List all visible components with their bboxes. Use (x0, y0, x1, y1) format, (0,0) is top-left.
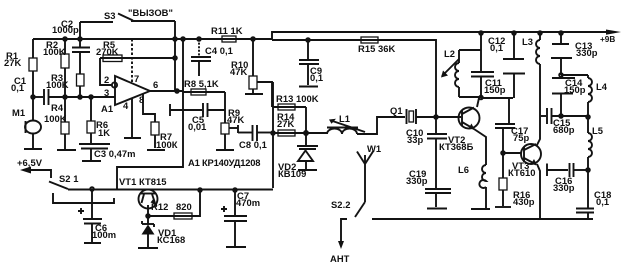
svg-text:R8 5,1K: R8 5,1K (184, 78, 219, 89)
svg-text:A1: A1 (101, 103, 113, 114)
svg-text:S2.2: S2.2 (331, 199, 351, 210)
svg-text:27K: 27K (4, 57, 22, 68)
svg-text:L6: L6 (458, 164, 469, 175)
svg-text:75p: 75p (513, 132, 530, 143)
svg-text:+9В: +9В (600, 35, 615, 44)
svg-text:330p: 330p (406, 175, 428, 186)
svg-text:100K: 100K (43, 46, 66, 57)
svg-text:R11 1K: R11 1K (211, 25, 243, 36)
svg-text:150p: 150p (564, 84, 586, 95)
svg-text:33p: 33p (407, 134, 424, 145)
svg-text:R13 100K: R13 100K (276, 93, 319, 104)
svg-text:3: 3 (104, 87, 109, 98)
svg-text:150p: 150p (484, 84, 506, 95)
svg-text:L3: L3 (522, 36, 533, 47)
svg-text:470m: 470m (236, 197, 260, 208)
svg-text:L4: L4 (596, 81, 608, 92)
svg-text:А1 КР140УД1208: А1 КР140УД1208 (188, 157, 260, 168)
svg-text:0,1: 0,1 (490, 42, 503, 53)
svg-text:КТ610: КТ610 (508, 167, 536, 178)
svg-text:430p: 430p (513, 196, 535, 207)
svg-text:330p: 330p (576, 47, 598, 58)
svg-text:7: 7 (134, 73, 139, 84)
svg-text:М1: М1 (12, 107, 25, 118)
svg-text:C8 0,1: C8 0,1 (239, 139, 267, 150)
svg-text:330p: 330p (553, 182, 575, 193)
svg-text:S3: S3 (104, 10, 116, 21)
svg-text:R12: R12 (151, 201, 168, 212)
svg-text:КВ109: КВ109 (278, 168, 306, 179)
svg-text:680p: 680p (553, 124, 575, 135)
svg-text:АНТ: АНТ (330, 253, 350, 264)
svg-text:L1: L1 (339, 113, 350, 124)
svg-text:820: 820 (176, 201, 192, 212)
svg-text:0,01: 0,01 (188, 121, 206, 132)
svg-text:6: 6 (153, 79, 158, 90)
svg-text:100К: 100К (156, 139, 178, 150)
svg-text:L5: L5 (592, 125, 603, 136)
svg-text:27K: 27K (277, 118, 295, 129)
svg-text:100m: 100m (92, 229, 116, 240)
svg-text:L2: L2 (444, 48, 455, 59)
svg-text:C4 0,1: C4 0,1 (205, 45, 233, 56)
svg-text:4: 4 (123, 100, 129, 111)
svg-text:C3 0,47m: C3 0,47m (94, 148, 136, 159)
svg-text:100K: 100K (46, 79, 69, 90)
svg-text:1K: 1K (98, 127, 110, 138)
svg-text:Q1: Q1 (390, 105, 403, 116)
svg-text:W1: W1 (367, 143, 381, 154)
svg-text:КТ368Б: КТ368Б (439, 141, 474, 152)
svg-text:2: 2 (104, 74, 109, 85)
svg-text:КС168: КС168 (157, 234, 185, 245)
svg-text:0,1: 0,1 (596, 196, 609, 207)
svg-text:R15 36K: R15 36K (358, 43, 396, 54)
svg-text:1000p: 1000p (52, 24, 79, 35)
svg-text:8: 8 (139, 94, 144, 105)
svg-text:0,1: 0,1 (310, 72, 323, 83)
svg-text:47K: 47K (227, 114, 245, 125)
svg-text:47K: 47K (230, 66, 248, 77)
svg-text:R4: R4 (51, 102, 64, 113)
svg-text:270K: 270K (96, 46, 119, 57)
svg-text:100K: 100K (44, 113, 67, 124)
svg-text:VТ1 КТ815: VТ1 КТ815 (119, 176, 167, 187)
svg-text:0,1: 0,1 (11, 82, 24, 93)
svg-text:+6,5V: +6,5V (17, 157, 43, 168)
svg-text:"ВЫЗОВ": "ВЫЗОВ" (128, 7, 173, 18)
svg-text:S2 1: S2 1 (59, 173, 79, 184)
